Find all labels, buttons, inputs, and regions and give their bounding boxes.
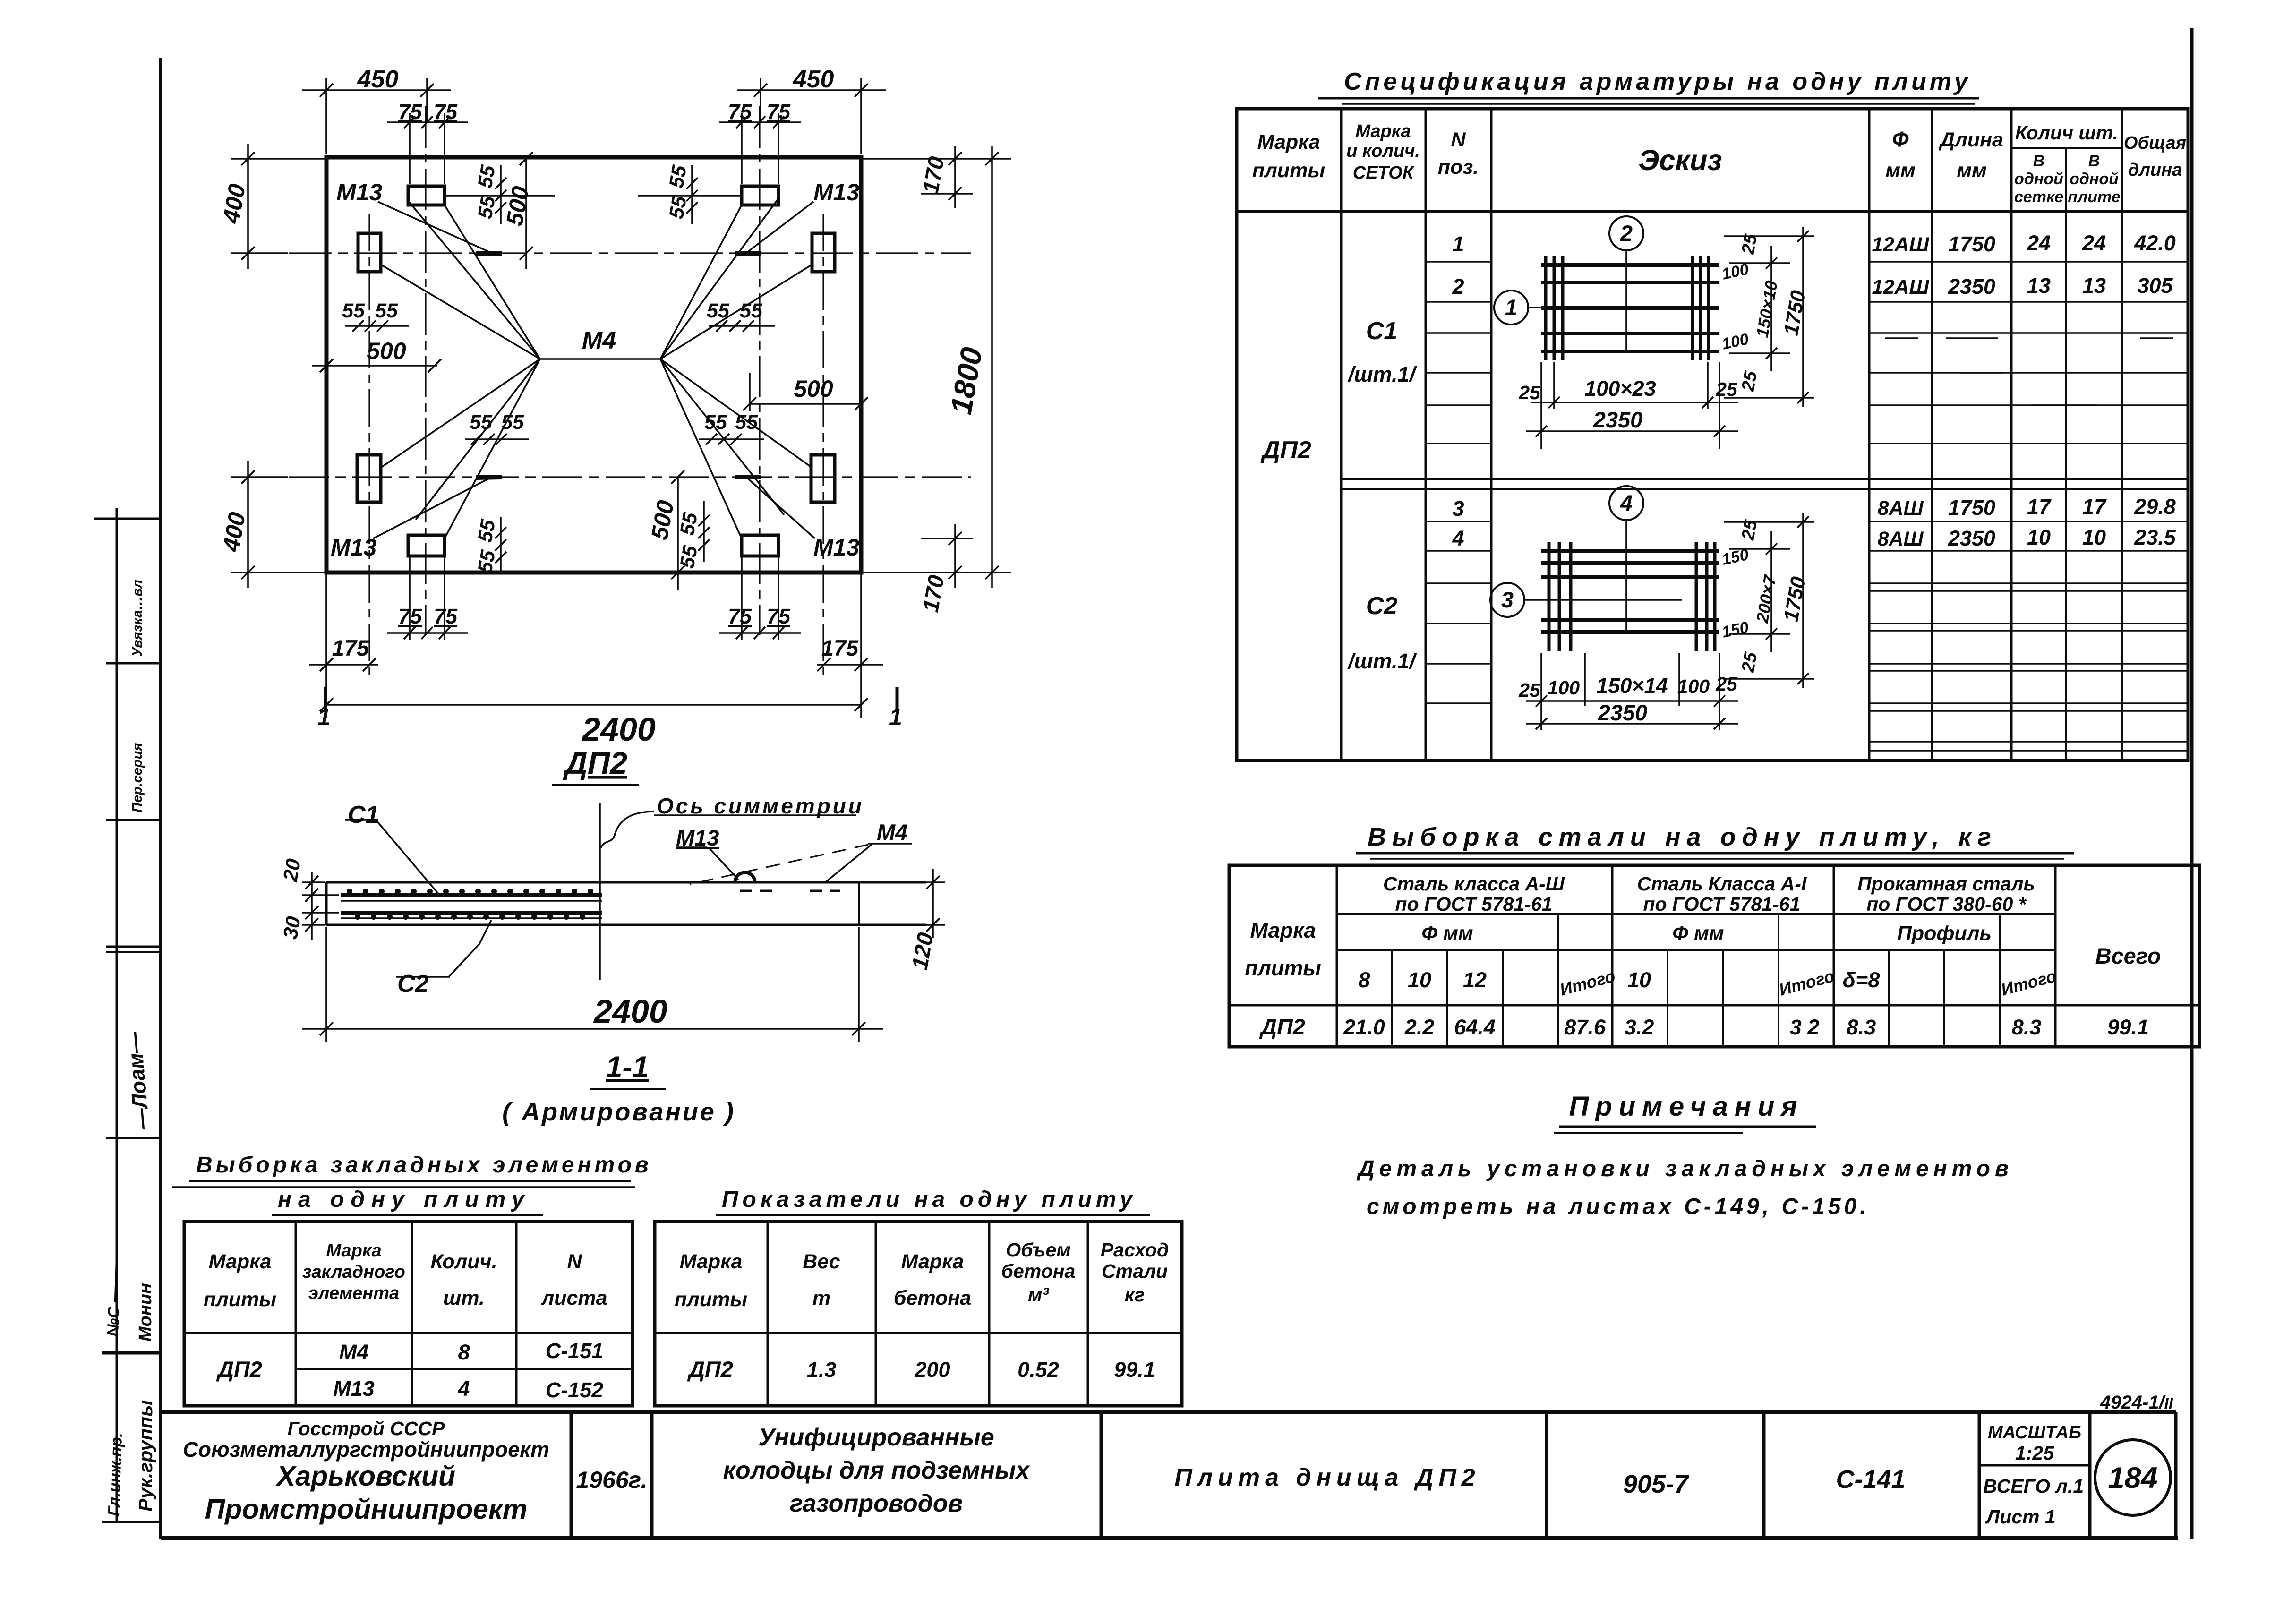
header row 2 bottom (1337, 949, 2055, 951)
embedded plate M4 right-top vertical (812, 233, 835, 272)
svg-text:Колич шт.: Колич шт. (2015, 122, 2118, 144)
svg-text:55: 55 (375, 299, 398, 322)
svg-text:30: 30 (279, 915, 306, 941)
svg-text:8: 8 (1358, 968, 1370, 992)
svg-text:С-141: С-141 (1836, 1465, 1905, 1494)
position circle 4 (1609, 486, 1643, 520)
svg-text:Промстройниипроект: Промстройниипроект (205, 1494, 528, 1525)
dim 170 bottom-right (863, 524, 1011, 588)
svg-text:20: 20 (279, 857, 305, 884)
sketch C1 labels (1505, 221, 1810, 432)
dim 500 top vertical (520, 152, 533, 269)
svg-text:25: 25 (1518, 382, 1541, 403)
axis line horizontal lower (289, 476, 971, 478)
steel title underline (1356, 852, 2074, 855)
cell divider scale|184 (2088, 1412, 2092, 1538)
spec col line 7 (2065, 148, 2067, 761)
svg-text:по ГОСТ 380-60 *: по ГОСТ 380-60 * (1866, 893, 2027, 915)
svg-text:Марка: Марка (901, 1250, 964, 1273)
dim 55 55 upper-right pair (709, 320, 775, 332)
embedded plate M4 top-left horizontal (408, 186, 445, 205)
svg-text:Марка: Марка (680, 1250, 743, 1273)
C1 dim 100x23 with 25s (1531, 362, 1738, 409)
svg-text:бетона: бетона (894, 1287, 971, 1309)
dim 120 right section (861, 869, 945, 938)
svg-text:Показатели на одну плиту: Показатели на одну плиту (722, 1187, 1137, 1212)
svg-text:газопроводов: газопроводов (790, 1490, 963, 1517)
title block outer top line (161, 1410, 2176, 1414)
svg-text:М13: М13 (813, 534, 859, 561)
svg-text:ДП2: ДП2 (1260, 436, 1311, 464)
svg-text:Расход: Расход (1101, 1239, 1169, 1261)
stamp column rotated entries (104, 580, 156, 1516)
svg-text:и колич.: и колич. (1346, 141, 1420, 161)
dim 30 left section (302, 906, 339, 932)
dim 170 top-right (863, 146, 1011, 208)
title block bottom (161, 1536, 2176, 1540)
M13 anchor dashes (740, 890, 778, 892)
svg-text:184: 184 (2108, 1462, 2157, 1495)
svg-text:55: 55 (676, 510, 702, 537)
svg-text:сетке: сетке (2014, 188, 2063, 206)
svg-text:Марка: Марка (1257, 131, 1320, 154)
svg-text:СЕТОК: СЕТОК (1353, 163, 1415, 183)
cell divider 905-7|C-141 (1762, 1412, 1766, 1538)
svg-text:δ=8: δ=8 (1843, 968, 1880, 992)
svg-text:55: 55 (501, 411, 524, 434)
svg-text:100×23: 100×23 (1584, 376, 1656, 401)
section title 1-1 underline2 (590, 1088, 666, 1090)
svg-text:55: 55 (665, 163, 692, 190)
mesh C1 bar (341, 893, 602, 897)
cell divider object|905-7 (1545, 1412, 1548, 1538)
svg-text:Марка: Марка (1250, 918, 1316, 942)
svg-text:Профиль: Профиль (1897, 922, 1992, 945)
svg-text:С2: С2 (397, 970, 429, 998)
svg-text:Харьковский: Харьковский (275, 1461, 455, 1492)
sub cols A-III (1391, 950, 1393, 1005)
axis line vertical right plates (759, 106, 760, 635)
svg-text:ДП2: ДП2 (1259, 1014, 1305, 1039)
itogo col prokat (1999, 914, 2001, 1005)
svg-text:№С ————: №С ———— (104, 1237, 125, 1337)
svg-text:10: 10 (1408, 968, 1431, 992)
position circle 2 (1609, 216, 1643, 250)
position circle 1 (1494, 291, 1528, 325)
svg-text:В: В (2033, 152, 2045, 170)
embedded table header bottom (184, 1332, 633, 1334)
plate outline (326, 157, 861, 573)
svg-text:С1: С1 (348, 801, 379, 829)
svg-text:Марка: Марка (326, 1241, 381, 1261)
spec col line 8 (2121, 109, 2123, 761)
svg-text:М13: М13 (336, 179, 382, 205)
svg-text:1: 1 (889, 704, 902, 730)
M13 loop mark top-left (476, 253, 502, 254)
svg-text:Эскиз: Эскиз (1638, 144, 1722, 176)
slab bottom line (326, 924, 926, 926)
C2 dim 2350 (1526, 653, 1738, 730)
spec col line 6 (2010, 109, 2013, 761)
dim 500 bottom-mid vertical + 55 pair (671, 470, 710, 590)
sub cols A-I (1667, 950, 1668, 1005)
svg-text:25: 25 (1518, 679, 1541, 701)
svg-text:кг: кг (1125, 1284, 1145, 1306)
header row 3 bottom (1229, 1004, 2199, 1007)
svg-text:55: 55 (474, 163, 500, 190)
embedded plate M4 left-top vertical (358, 233, 381, 272)
steel section A-I right (1833, 865, 1835, 1047)
position circle 3 (1490, 583, 1524, 617)
steel table outer (1229, 865, 2199, 1047)
svg-text:3 2: 3 2 (1790, 1015, 1820, 1039)
dim 55 55 lower-left pair (465, 434, 529, 445)
leader M13 bottom-left (373, 479, 489, 538)
dim 55 55 upper-left pair (345, 320, 409, 332)
svg-text:10: 10 (1627, 968, 1651, 992)
M13 loop mark top-right (735, 251, 761, 256)
N column rulings (1426, 262, 1491, 703)
svg-text:29.8: 29.8 (2134, 495, 2176, 519)
svg-text:75: 75 (434, 604, 458, 628)
svg-text:75: 75 (398, 100, 422, 124)
sheet number circle 184 (2095, 1440, 2171, 1515)
svg-text:75: 75 (767, 604, 791, 628)
embedded plate M4 left-bottom vertical (357, 455, 381, 502)
svg-text:1: 1 (1505, 295, 1517, 320)
svg-text:1750: 1750 (1948, 232, 1995, 256)
svg-text:Всего: Всего (2095, 943, 2161, 968)
svg-text:С-151: С-151 (546, 1339, 604, 1363)
indicators header bottom (655, 1332, 1182, 1334)
svg-text:Вес: Вес (803, 1250, 840, 1273)
leader C1 (376, 820, 438, 894)
svg-text:8: 8 (458, 1340, 470, 1364)
svg-text:75: 75 (434, 100, 458, 124)
svg-text:на одну плиту: на одну плиту (278, 1187, 531, 1212)
dim 75 75 bottom-right (719, 557, 801, 640)
svg-text:1966г.: 1966г. (576, 1467, 647, 1493)
svg-text:Сталь Класса А-I: Сталь Класса А-I (1637, 873, 1807, 895)
indicators title underline (716, 1214, 1150, 1216)
spec col line 3 (1490, 109, 1493, 761)
svg-text:75: 75 (398, 604, 422, 628)
leader M4 section (868, 843, 912, 845)
svg-text:8АШ: 8АШ (1877, 528, 1924, 550)
header row 1 bottom (1337, 913, 2055, 915)
svg-text:1-1: 1-1 (606, 1051, 649, 1084)
svg-text:3: 3 (1452, 496, 1464, 521)
leader M13 top-left (378, 202, 489, 252)
right columns rulings C1 (1869, 262, 2188, 444)
indicators table outer (655, 1222, 1182, 1406)
svg-text:25: 25 (1715, 673, 1738, 695)
svg-text:12АШ: 12АШ (1872, 276, 1930, 299)
svg-text:Деталь установки закладных: Деталь установки закладных элементов (1356, 1156, 2013, 1181)
dim 500 right horizontal (743, 373, 868, 411)
svg-text:Колич.: Колич. (430, 1250, 497, 1273)
C2 right dims (1724, 513, 1814, 688)
axis line vertical left plates (425, 106, 426, 635)
section cut stroke left (324, 687, 327, 709)
spec col line 1 (1340, 109, 1343, 761)
svg-text:1: 1 (317, 704, 331, 730)
M4 fan crossbar (540, 358, 660, 360)
dim 75 75 top-right (719, 113, 801, 184)
svg-text:8АШ: 8АШ (1877, 497, 1924, 520)
svg-text:Союзметаллургстройниипроект: Союзметаллургстройниипроект (183, 1437, 549, 1462)
embedded plate M4 bottom-right horizontal (742, 535, 778, 556)
leader axis of symmetry squiggle (601, 812, 654, 848)
svg-text:N: N (1451, 128, 1466, 151)
svg-text:М13: М13 (813, 179, 859, 205)
svg-text:Госстрой СССР: Госстрой СССР (288, 1418, 445, 1439)
svg-text:100: 100 (1677, 675, 1710, 697)
dim 75 75 top-left (387, 113, 468, 184)
svg-text:500: 500 (794, 376, 833, 402)
svg-text:1: 1 (1452, 232, 1464, 256)
svg-text:17: 17 (2027, 495, 2052, 519)
dim 400 upper-left (231, 144, 325, 269)
M4 fan left node (381, 201, 540, 538)
cell divider C-141|scale (1978, 1412, 1981, 1538)
svg-text:1750: 1750 (1948, 496, 1995, 520)
steel section A-III right (1611, 865, 1614, 1047)
svg-text:10: 10 (2082, 525, 2106, 549)
svg-text:55: 55 (735, 411, 758, 434)
svg-text:плиты: плиты (204, 1288, 276, 1311)
stamp column divider ticks (94, 518, 161, 520)
svg-text:Длина: Длина (1938, 128, 2003, 151)
svg-text:1:25: 1:25 (2015, 1442, 2054, 1464)
kolich subsplit (2011, 147, 2122, 149)
embedded table outer (184, 1222, 633, 1406)
svg-text:плиты: плиты (1252, 159, 1325, 182)
dim 55 55 top-center-left (rotated pair) (445, 165, 555, 224)
C1 dim 2350 (1526, 362, 1738, 449)
svg-text:25: 25 (1738, 518, 1761, 542)
svg-text:10: 10 (2027, 525, 2051, 549)
svg-text:т: т (812, 1287, 830, 1309)
svg-text:Ф мм: Ф мм (1672, 922, 1724, 945)
svg-text:одной: одной (2070, 170, 2119, 188)
svg-text:12: 12 (1463, 968, 1487, 992)
svg-text:( Армирование ): ( Армирование ) (502, 1098, 735, 1126)
svg-text:17: 17 (2082, 495, 2107, 519)
svg-text:200: 200 (914, 1358, 950, 1382)
leader M13 section (676, 846, 707, 848)
svg-text:55: 55 (704, 411, 727, 434)
svg-text:М13: М13 (331, 534, 376, 561)
svg-text:13: 13 (2082, 274, 2106, 298)
embedded table mid row (296, 1368, 633, 1370)
steel table text (1245, 873, 2161, 1039)
spec col line 4 (1868, 109, 1871, 761)
itogo col A-I (1778, 914, 1779, 1005)
M13 loop mark bottom-right (735, 475, 761, 479)
svg-text:25: 25 (1715, 378, 1738, 400)
svg-text:2350: 2350 (1598, 700, 1648, 725)
spec table header text (1252, 121, 2186, 206)
svg-text:N: N (567, 1250, 582, 1273)
embedded plate M4 bottom-left horizontal (408, 535, 445, 556)
svg-text:64.4: 64.4 (1454, 1015, 1496, 1039)
svg-text:2400: 2400 (581, 711, 656, 748)
cell divider org|year (570, 1412, 573, 1538)
mesh C2 dots (355, 914, 585, 920)
dim 175 bottom-right (817, 574, 883, 718)
svg-text:/шт.1/: /шт.1/ (1347, 649, 1417, 673)
sketch C2 mesh (1490, 486, 1814, 730)
svg-text:плите: плите (2068, 188, 2120, 206)
svg-text:23.5: 23.5 (2134, 525, 2176, 549)
axis line horizontal upper (289, 252, 971, 254)
svg-text:175: 175 (821, 635, 859, 660)
sheet frame bottom border (161, 1536, 2178, 1540)
svg-text:листа: листа (540, 1287, 607, 1309)
axis line vertical left column (368, 214, 370, 675)
M13 loop symbol on slab (735, 872, 755, 882)
svg-text:Гл.инж.пр.: Гл.инж.пр. (105, 1432, 126, 1516)
scale cell horizontal split (1979, 1464, 2090, 1467)
spec title underline (1318, 97, 1979, 100)
svg-text:55: 55 (676, 543, 702, 570)
svg-text:Ось симметрии: Ось симметрии (657, 794, 864, 818)
svg-text:24: 24 (2027, 231, 2051, 255)
embedded table cols (295, 1222, 297, 1406)
dim 55 55 bottom-center-left rotated (495, 517, 506, 574)
data row sub cols (1391, 1005, 1393, 1047)
svg-text:905-7: 905-7 (1623, 1470, 1690, 1498)
slab left edge (325, 882, 328, 925)
svg-text:В: В (2088, 152, 2100, 170)
svg-text:одной: одной (2014, 170, 2063, 188)
sub cols prokat (1888, 950, 1890, 1005)
section text labels (279, 794, 938, 1126)
svg-text:шт.: шт. (443, 1287, 485, 1309)
svg-text:Выборка закладных элементов: Выборка закладных элементов (196, 1153, 652, 1178)
svg-text:8.3: 8.3 (2012, 1015, 2042, 1039)
svg-text:Плита днища ДП2: Плита днища ДП2 (1174, 1464, 1480, 1491)
svg-text:75: 75 (728, 604, 752, 628)
svg-text:55: 55 (470, 411, 493, 434)
dim 2400 section (302, 927, 883, 1042)
svg-text:3: 3 (1501, 587, 1514, 612)
svg-text:по ГОСТ 5781-61: по ГОСТ 5781-61 (1395, 893, 1553, 915)
svg-text:ДП2: ДП2 (687, 1357, 733, 1382)
svg-text:колодцы для подземных: колодцы для подземных (723, 1457, 1031, 1484)
svg-text:М4: М4 (877, 820, 907, 845)
svg-text:М4: М4 (339, 1340, 369, 1364)
svg-text:Марка: Марка (1355, 121, 1411, 141)
dim 2400 plan (320, 698, 868, 711)
svg-text:55: 55 (740, 299, 763, 322)
stamp column left line (116, 508, 118, 1522)
svg-text:С-152: С-152 (546, 1378, 604, 1402)
dim 55 55 lower-right pair (699, 434, 764, 445)
svg-text:плиты: плиты (1245, 956, 1321, 980)
svg-text:175: 175 (332, 635, 369, 660)
svg-text:Стали: Стали (1102, 1260, 1168, 1282)
svg-text:2400: 2400 (593, 993, 667, 1030)
svg-text:Выборка стали на одну пл: Выборка стали на одну плиту, кг (1368, 823, 1997, 851)
svg-text:Марка: Марка (209, 1250, 272, 1273)
svg-text:Ф мм: Ф мм (1421, 922, 1473, 945)
svg-text:Пер.серия: Пер.серия (130, 743, 145, 812)
svg-text:87.6: 87.6 (1564, 1015, 1606, 1039)
svg-text:55: 55 (342, 299, 365, 322)
svg-text:/шт.1/: /шт.1/ (1347, 362, 1417, 386)
svg-text:450: 450 (357, 66, 399, 93)
spec col line 5 (1931, 109, 1933, 761)
svg-text:Лист 1: Лист 1 (1985, 1506, 2056, 1528)
leader M13 bottom-right (748, 479, 815, 538)
svg-text:Увязка…вл: Увязка…вл (130, 580, 145, 657)
svg-text:плиты: плиты (675, 1288, 747, 1311)
plan title DP2 underline2 (552, 784, 639, 786)
svg-text:99.1: 99.1 (2107, 1015, 2149, 1039)
M4 fan right node (660, 198, 812, 538)
svg-text:С2: С2 (1366, 592, 1398, 620)
svg-text:Объем: Объем (1006, 1239, 1070, 1261)
embedded plate M4 right-bottom vertical (811, 455, 835, 502)
svg-text:Монин: Монин (136, 1283, 155, 1342)
svg-text:100: 100 (1548, 677, 1580, 699)
C1/C2 split band (1341, 478, 2188, 480)
indicators table cols (767, 1222, 769, 1406)
centerline axis of symmetry (599, 803, 601, 980)
svg-text:55: 55 (474, 517, 500, 544)
svg-text:2350: 2350 (1593, 407, 1643, 432)
svg-text:М13: М13 (333, 1376, 375, 1401)
dim 175 bottom-left (309, 574, 378, 718)
svg-text:2: 2 (1452, 274, 1464, 299)
svg-text:13: 13 (2027, 274, 2051, 298)
svg-text:Рук.группы: Рук.группы (135, 1400, 156, 1512)
dim 1800 right (985, 146, 999, 588)
svg-text:Унифицированные: Унифицированные (758, 1424, 994, 1451)
spec col line 2 (1425, 109, 1427, 761)
axis line vertical right column (822, 214, 824, 675)
svg-text:М13: М13 (676, 825, 719, 850)
svg-text:450: 450 (793, 66, 834, 93)
embedded plate M4 top-right horizontal (742, 186, 778, 205)
svg-text:25: 25 (1738, 369, 1761, 393)
title block right end (2174, 1412, 2178, 1538)
dim 55 55 top-center-right (638, 165, 742, 224)
cell divider project|object (1100, 1412, 1103, 1538)
svg-text:МАСШТАБ: МАСШТАБ (1988, 1423, 2081, 1443)
svg-text:12АШ: 12АШ (1872, 233, 1930, 256)
sheet frame right border (2190, 28, 2194, 1539)
svg-text:2350: 2350 (1948, 526, 1995, 550)
svg-text:м³: м³ (1028, 1284, 1049, 1306)
sheet frame left border (159, 58, 162, 1539)
leader C2 (449, 920, 491, 977)
svg-text:мм: мм (1957, 159, 1987, 182)
dim 450 right (737, 78, 886, 154)
itogo col A-III (1557, 914, 1559, 1005)
svg-text:Примечания: Примечания (1569, 1091, 1804, 1122)
svg-text:55: 55 (474, 194, 500, 221)
leader M13 top-right (748, 202, 813, 252)
svg-text:55: 55 (474, 548, 500, 575)
svg-text:75: 75 (767, 100, 791, 124)
svg-text:75: 75 (728, 100, 752, 124)
slab top line (326, 881, 926, 884)
C1 right dims (1724, 227, 1814, 407)
svg-text:4924-1/II: 4924-1/II (2100, 1392, 2173, 1413)
